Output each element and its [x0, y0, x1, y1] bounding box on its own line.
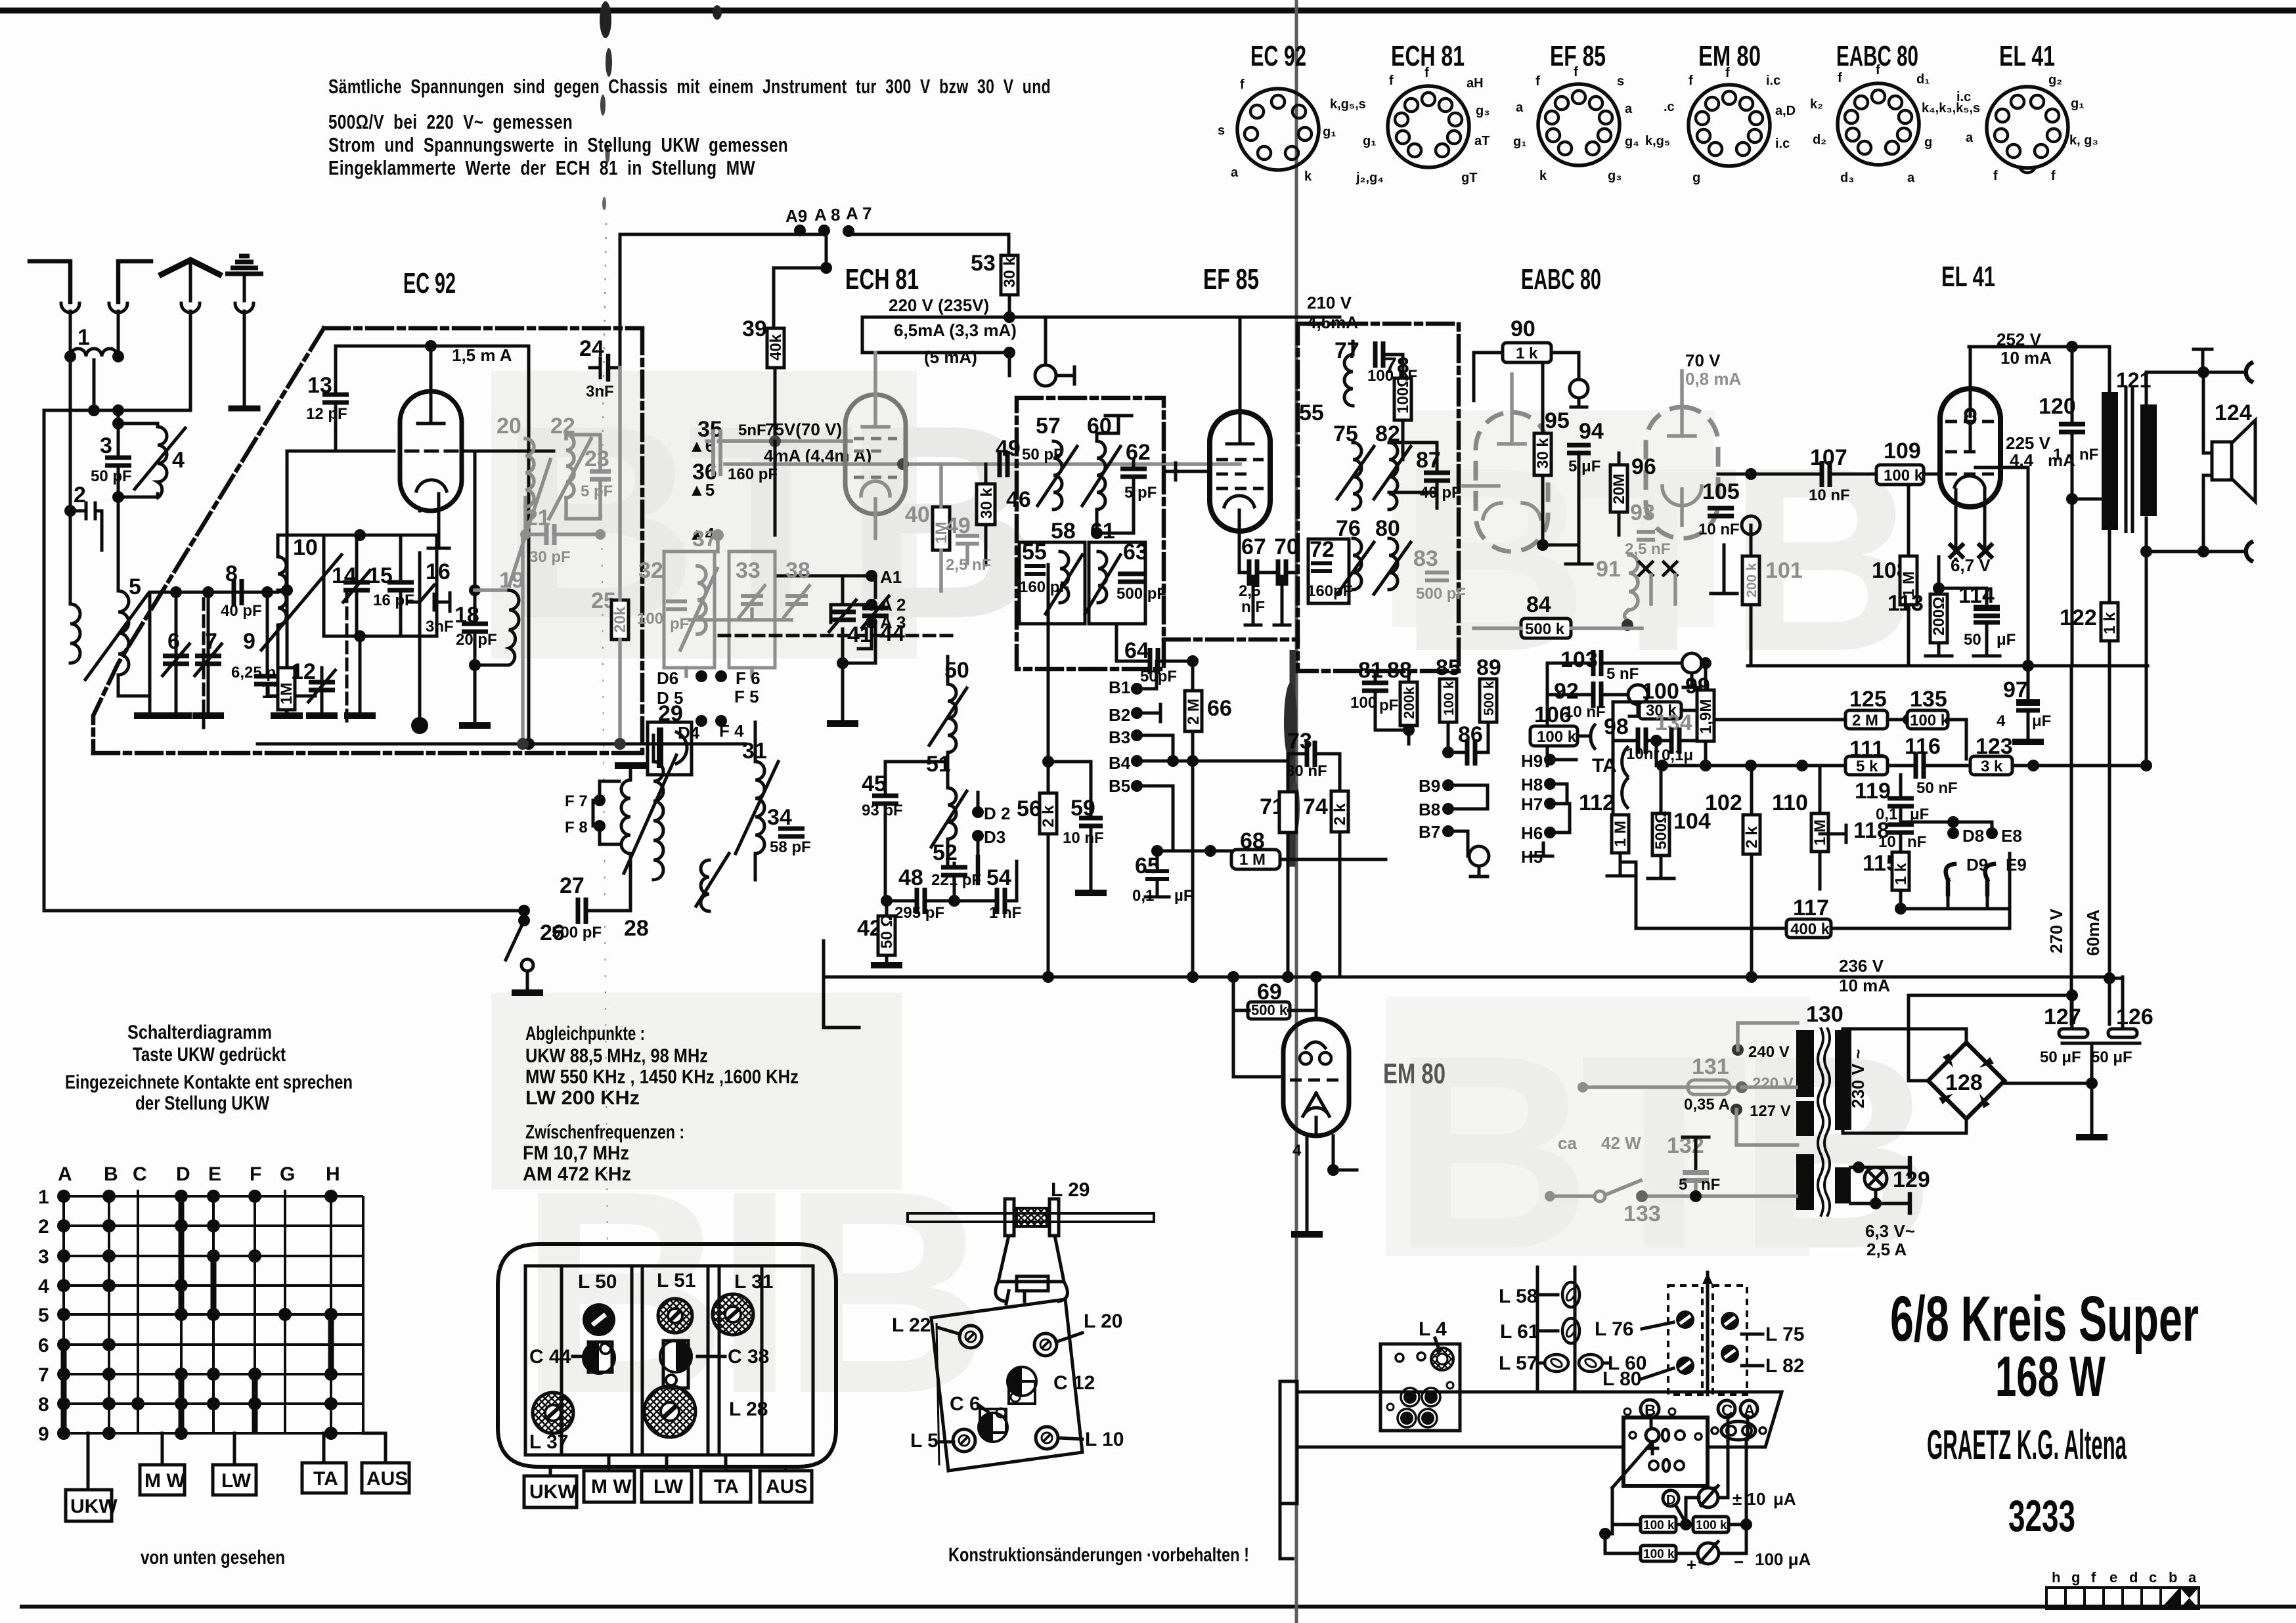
resistor 100k a — [1641, 1517, 1676, 1532]
button stub AUS — [363, 1433, 386, 1463]
svg-text:pF: pF — [670, 615, 689, 633]
wire 125 rail — [1714, 718, 1909, 722]
svg-text:−: − — [1734, 1552, 1744, 1572]
svg-text:LW: LW — [221, 1470, 252, 1492]
wire anode top — [1969, 345, 2109, 349]
svg-text:F 4: F 4 — [719, 721, 744, 741]
svg-text:105: 105 — [1702, 479, 1740, 504]
svg-text:L 76: L 76 — [1595, 1318, 1634, 1340]
resistor 100k c — [1641, 1546, 1676, 1561]
svg-text:M W: M W — [144, 1470, 185, 1492]
svg-text:500Ω/V bei 220 V~ gemessen: 500Ω/V bei 220 V~ gemessen — [328, 110, 573, 133]
svg-text:a: a — [1966, 131, 1974, 145]
button LW — [213, 1465, 256, 1495]
capacitor 13 12pF — [334, 346, 338, 391]
svg-text:F 7: F 7 — [565, 792, 588, 810]
svg-text:500 k: 500 k — [1251, 1002, 1288, 1018]
wire 119-D8 rail — [1901, 822, 1992, 833]
svg-text:70 V: 70 V — [1685, 351, 1721, 370]
svg-text:nF: nF — [1701, 1176, 1720, 1194]
antenna plug hook 2 — [109, 303, 127, 313]
svg-text:Eingezeichnete Kontakte ent s: Eingezeichnete Kontakte ent sprechen — [65, 1071, 353, 1093]
svg-text:g₁: g₁ — [1323, 125, 1336, 139]
svg-text:B8: B8 — [1419, 800, 1440, 819]
antenna terminal stub left — [30, 261, 70, 302]
svg-text:2 k: 2 k — [1331, 803, 1349, 825]
svg-text:k,g₅: k,g₅ — [1645, 134, 1670, 148]
tube socket EF 85 — [1513, 40, 1639, 183]
coil 30 — [701, 860, 709, 911]
svg-text:E: E — [208, 1163, 221, 1185]
svg-text:72: 72 — [1310, 537, 1335, 562]
svg-text:44: 44 — [880, 621, 905, 646]
svg-text:μA: μA — [1773, 1489, 1796, 1509]
svg-text:61: 61 — [1090, 519, 1115, 544]
svg-text:μF: μF — [1997, 631, 2016, 649]
svg-text:66: 66 — [1207, 696, 1232, 721]
svg-text:AUS: AUS — [766, 1476, 807, 1498]
svg-text:63: 63 — [1123, 540, 1148, 565]
svg-text:122: 122 — [2060, 605, 2097, 630]
svg-text:51: 51 — [926, 752, 951, 777]
svg-text:EABC 80: EABC 80 — [1521, 263, 1601, 295]
svg-text:124: 124 — [2215, 400, 2252, 425]
svg-text:4: 4 — [1997, 712, 2006, 730]
svg-text:30 nF: 30 nF — [1286, 762, 1327, 780]
svg-text:von unten gesehen: von unten gesehen — [141, 1547, 285, 1569]
svg-text:g: g — [2071, 1569, 2080, 1586]
svg-text:1 k: 1 k — [2101, 612, 2119, 634]
svg-text:3nF: 3nF — [586, 383, 614, 400]
wire outer box bottom — [44, 909, 524, 913]
svg-text:d₁: d₁ — [1916, 72, 1930, 87]
wire 5 to grid bus — [118, 675, 150, 696]
svg-text:2 M: 2 M — [1185, 699, 1203, 725]
svg-text:FM 10,7 MHz: FM 10,7 MHz — [523, 1142, 629, 1164]
ground 6 — [160, 715, 192, 716]
svg-text:der Stellung UKW: der Stellung UKW — [135, 1093, 270, 1114]
ground top — [1105, 416, 1132, 433]
box 32 37 — [664, 552, 715, 668]
meter upper 10uA — [1698, 1488, 1718, 1507]
triode EABC80 — [1476, 412, 1548, 552]
tube socket EABC 80 — [1810, 40, 1980, 185]
svg-text:56: 56 — [1017, 796, 1042, 821]
matrix contact dots — [57, 1190, 338, 1440]
mech link dashed — [719, 634, 956, 638]
svg-text:Strom und Spannungswerte in: Strom und Spannungswerte in Stellung UKW… — [328, 133, 788, 156]
svg-text:9: 9 — [243, 629, 255, 654]
svg-text:1 nF: 1 nF — [989, 904, 1021, 922]
svg-text:50 μF: 50 μF — [2091, 1049, 2132, 1066]
coil pack outline — [498, 1244, 836, 1467]
svg-text:μF: μF — [2032, 712, 2051, 730]
bridge rectifier 128 — [1928, 1043, 2004, 1119]
paper top border — [0, 8, 2296, 14]
wire 236V bus — [824, 976, 2109, 979]
switch 26 — [518, 905, 530, 917]
svg-text:500Ω: 500Ω — [1652, 811, 1670, 850]
svg-text:28: 28 — [624, 916, 649, 941]
svg-text:30 k: 30 k — [978, 488, 996, 519]
mains switch 133 — [1595, 1191, 1605, 1201]
svg-text:L 28: L 28 — [729, 1398, 768, 1420]
svg-text:k: k — [1304, 169, 1312, 184]
svg-text:62: 62 — [1126, 440, 1151, 465]
svg-text:97: 97 — [2003, 678, 2028, 703]
svg-text:58: 58 — [1051, 519, 1076, 544]
svg-text:84: 84 — [1526, 592, 1551, 617]
svg-text:127 V: 127 V — [1750, 1102, 1791, 1120]
wire osc section — [774, 441, 777, 535]
svg-text:EL 41: EL 41 — [1941, 261, 1995, 293]
svg-text:g₃: g₃ — [1608, 169, 1622, 183]
svg-text:H: H — [326, 1163, 340, 1185]
tube socket EM 80 — [1645, 40, 1796, 185]
svg-text:B9: B9 — [1419, 776, 1440, 796]
svg-text:113: 113 — [1888, 591, 1924, 616]
svg-text:L 10: L 10 — [1085, 1429, 1124, 1450]
svg-text:B: B — [104, 1163, 118, 1185]
svg-text:100 k: 100 k — [1537, 728, 1577, 746]
svg-text:135: 135 — [1910, 687, 1947, 712]
terminal 127V — [1731, 1104, 1742, 1115]
svg-text:k₂: k₂ — [1810, 97, 1823, 112]
svg-text:EL 41: EL 41 — [1999, 40, 2055, 72]
IF can link dash-dot — [1164, 638, 1298, 642]
svg-text:76: 76 — [1336, 516, 1361, 541]
heater winding — [1835, 1167, 1851, 1203]
svg-text:Abgleichpunkte :: Abgleichpunkte : — [525, 1023, 645, 1045]
svg-text:L 57: L 57 — [1499, 1352, 1538, 1374]
svg-text:50 pF: 50 pF — [1022, 446, 1063, 464]
heptode ECH81 — [845, 395, 906, 514]
svg-text:7: 7 — [38, 1364, 49, 1386]
svg-text:ECH 81: ECH 81 — [845, 263, 919, 295]
wire anode bus y527 — [336, 345, 529, 348]
svg-text:40: 40 — [905, 502, 930, 527]
svg-text:f: f — [1725, 66, 1730, 80]
svg-text:e: e — [2109, 1569, 2117, 1586]
coil 4 tunable — [118, 423, 158, 497]
svg-text:f: f — [1689, 74, 1693, 88]
svg-text:EM 80: EM 80 — [1383, 1058, 1446, 1090]
svg-text:i.c: i.c — [1775, 137, 1790, 151]
svg-text:C 44: C 44 — [529, 1346, 571, 1368]
svg-text:30 k: 30 k — [1534, 438, 1552, 469]
svg-text:100 k: 100 k — [1442, 681, 1457, 716]
svg-text:Schalterdiagramm: Schalterdiagramm — [127, 1022, 272, 1043]
svg-text:10 nF: 10 nF — [1698, 521, 1740, 538]
svg-text:5: 5 — [129, 574, 141, 599]
svg-text:220 V: 220 V — [1752, 1075, 1794, 1093]
svg-text:g₁: g₁ — [1513, 135, 1527, 149]
svg-text:91: 91 — [1596, 557, 1621, 582]
svg-text:k,g₅,s: k,g₅,s — [1330, 97, 1366, 112]
svg-text:100 k: 100 k — [1910, 712, 1950, 729]
svg-text:1M: 1M — [278, 683, 296, 704]
svg-text:µF: µF — [1174, 887, 1193, 905]
antenna plug hook 1 — [61, 303, 79, 313]
svg-text:Eingeklammerte Werte der EC: Eingeklammerte Werte der ECH 81 in Stell… — [328, 156, 755, 179]
svg-text:50 nF: 50 nF — [1916, 779, 1958, 797]
tuning indicator box — [1623, 1417, 1708, 1486]
IF transformer III dashed box — [1298, 324, 1459, 671]
antenna terminal stub 2 — [118, 261, 151, 302]
svg-text:20M: 20M — [1610, 473, 1628, 504]
svg-text:A1: A1 — [880, 567, 902, 587]
svg-text:g: g — [1924, 135, 1932, 150]
svg-text:6,5mA (3,3 mA): 6,5mA (3,3 mA) — [894, 320, 1017, 340]
svg-text:g₁: g₁ — [1363, 134, 1377, 148]
socket wires — [1651, 1416, 1748, 1498]
svg-text:10 mA: 10 mA — [2000, 348, 2052, 368]
svg-text:40k: 40k — [767, 334, 785, 360]
svg-text:3nF: 3nF — [426, 618, 454, 636]
svg-text:112: 112 — [1579, 790, 1615, 815]
svg-text:H9: H9 — [1521, 751, 1543, 771]
socket B — [1641, 1400, 1659, 1418]
svg-text:C 38: C 38 — [728, 1346, 769, 1368]
button stub UKW — [87, 1433, 90, 1490]
svg-text:B5: B5 — [1109, 776, 1130, 796]
svg-text:16: 16 — [426, 559, 451, 584]
svg-text:EC 92: EC 92 — [1250, 40, 1306, 72]
svg-text:j₂,g₄: j₂,g₄ — [1356, 171, 1384, 185]
svg-text:9: 9 — [38, 1423, 49, 1445]
earth antenna symbol — [225, 256, 263, 274]
test point — [1035, 365, 1056, 386]
wire grid1 gray — [725, 439, 851, 443]
svg-text:0,1: 0,1 — [1132, 887, 1154, 905]
tube socket ECH 81 — [1330, 40, 1490, 185]
X marks EABC — [1639, 562, 1677, 575]
svg-text:295 pF: 295 pF — [894, 904, 944, 922]
button TA — [302, 1463, 346, 1493]
svg-text:34: 34 — [767, 805, 792, 830]
svg-text:a: a — [1231, 165, 1239, 180]
svg-text:a: a — [1516, 100, 1524, 115]
svg-text:5 μF: 5 μF — [1568, 458, 1601, 475]
svg-text:g: g — [1692, 171, 1700, 185]
svg-text:117: 117 — [1793, 896, 1829, 920]
switch matrix grid — [64, 1190, 363, 1433]
svg-text:2 M: 2 M — [1852, 712, 1878, 729]
svg-text:nF: nF — [1907, 833, 1926, 851]
paper bottom border — [20, 1605, 2296, 1609]
svg-text:98: 98 — [1604, 714, 1629, 739]
button MW — [140, 1465, 185, 1495]
svg-text:240 V: 240 V — [1748, 1043, 1790, 1061]
svg-text:TA: TA — [313, 1468, 338, 1490]
svg-text:65: 65 — [1135, 854, 1160, 878]
svg-text:g₄: g₄ — [1625, 135, 1639, 149]
svg-text:5 nF: 5 nF — [1606, 665, 1639, 683]
svg-text:2: 2 — [38, 1216, 49, 1238]
svg-text:20k: 20k — [611, 606, 629, 633]
svg-text:F 5: F 5 — [734, 687, 759, 706]
SEC_EF85 — [1164, 263, 2152, 1024]
fold smudges top — [600, 1, 611, 38]
svg-text:133: 133 — [1623, 1201, 1661, 1226]
svg-text:20: 20 — [497, 414, 521, 439]
svg-text:D8: D8 — [1962, 826, 1984, 846]
svg-text:27: 27 — [560, 873, 585, 898]
svg-text:f: f — [1240, 77, 1245, 92]
svg-text:1 M: 1 M — [1239, 851, 1266, 869]
svg-text:d₂: d₂ — [1813, 133, 1826, 147]
svg-text:A 2: A 2 — [880, 595, 906, 615]
svg-text:1 k: 1 k — [1516, 345, 1538, 362]
svg-text:500 pF: 500 pF — [552, 924, 602, 941]
svg-text:130: 130 — [1806, 1002, 1843, 1027]
IF can L76 L75 block — [1668, 1286, 1747, 1395]
svg-text:128: 128 — [1945, 1070, 1983, 1095]
wire af bus — [1546, 663, 1549, 766]
svg-text:160pF: 160pF — [1307, 582, 1352, 600]
svg-text:32: 32 — [638, 558, 663, 583]
svg-text:EC 92: EC 92 — [403, 267, 456, 299]
coil L37 — [533, 1393, 573, 1433]
svg-text:± 10: ± 10 — [1733, 1489, 1765, 1509]
resistor 46 30k — [977, 484, 995, 525]
button UKW 2 — [524, 1476, 577, 1507]
box 61 63 — [1089, 542, 1145, 624]
svg-text:k, g₃: k, g₃ — [2069, 133, 2098, 148]
svg-text:10 nF: 10 nF — [1809, 487, 1850, 504]
X marks EL41 cathode — [1951, 545, 1991, 557]
svg-text:67: 67 — [1241, 534, 1266, 559]
gray overlay UKW region left — [491, 371, 917, 659]
svg-text:120: 120 — [2039, 394, 2076, 419]
svg-text:500 pF: 500 pF — [1116, 585, 1166, 603]
svg-text:500 k: 500 k — [1482, 681, 1497, 716]
svg-text:400 k: 400 k — [1790, 920, 1830, 938]
svg-text:B3: B3 — [1109, 727, 1130, 747]
svg-text:s: s — [1218, 123, 1225, 138]
wires EABC couplings — [1375, 729, 1409, 732]
svg-text:M W: M W — [591, 1476, 632, 1498]
svg-text:GRAETZ K.G. Altena: GRAETZ K.G. Altena — [1927, 1422, 2127, 1468]
svg-text:F: F — [250, 1163, 261, 1185]
svg-text:127: 127 — [2044, 1005, 2081, 1029]
svg-text:5: 5 — [1679, 1176, 1687, 1194]
svg-text:H7: H7 — [1521, 794, 1543, 814]
svg-text:TA: TA — [714, 1476, 739, 1498]
svg-text:a: a — [1625, 102, 1633, 116]
svg-text:H6: H6 — [1521, 823, 1543, 843]
svg-text:160 pF: 160 pF — [728, 465, 778, 483]
svg-text:L 50: L 50 — [578, 1271, 617, 1293]
svg-text:94: 94 — [1579, 419, 1604, 444]
svg-text:119: 119 — [1855, 779, 1891, 804]
svg-text:F 8: F 8 — [565, 819, 588, 836]
svg-text:D3: D3 — [984, 827, 1005, 847]
center fold line — [1295, 0, 1298, 1623]
svg-text:5nF: 5nF — [738, 422, 766, 439]
svg-text:42 W: 42 W — [1601, 1133, 1641, 1153]
svg-text:10: 10 — [293, 535, 318, 560]
svg-text:93: 93 — [1630, 500, 1655, 525]
svg-text:6: 6 — [38, 1335, 49, 1356]
svg-text:d₃: d₃ — [1840, 171, 1854, 185]
button MW 2 — [584, 1471, 634, 1502]
svg-text:s: s — [1617, 74, 1624, 89]
svg-text:C 6: C 6 — [950, 1393, 981, 1415]
svg-text:f: f — [2091, 1569, 2096, 1586]
svg-text:50pF: 50pF — [1140, 668, 1177, 685]
svg-text:L 80: L 80 — [1602, 1368, 1642, 1390]
terminal 240V — [1732, 1044, 1744, 1056]
svg-text:+: + — [1687, 1555, 1696, 1574]
svg-text:D4: D4 — [678, 723, 700, 743]
svg-text:500 pF: 500 pF — [1416, 585, 1466, 603]
svg-text:L 58: L 58 — [1499, 1286, 1538, 1307]
wire cathode — [1939, 557, 1987, 594]
wire grid 225V — [1924, 473, 1941, 476]
wire A bus — [620, 234, 1009, 255]
svg-text:48: 48 — [898, 865, 923, 890]
cathode line to 16 — [420, 511, 439, 548]
svg-text:83: 83 — [1413, 546, 1438, 571]
terminal D meter — [1663, 1490, 1679, 1506]
svg-text:100 k: 100 k — [1643, 1547, 1675, 1561]
UKW box dash-dot outline — [93, 328, 324, 753]
svg-text:96: 96 — [1631, 454, 1656, 479]
svg-text:L 82: L 82 — [1765, 1355, 1805, 1377]
svg-text:6/8 Kreis Super: 6/8 Kreis Super — [1890, 1283, 2199, 1354]
svg-text:236 V: 236 V — [1839, 956, 1884, 976]
svg-text:L 20: L 20 — [1084, 1310, 1123, 1332]
svg-text:100 μA: 100 μA — [1755, 1549, 1811, 1569]
svg-text:3: 3 — [100, 433, 112, 458]
wire left outer vertical — [43, 410, 46, 911]
svg-text:L 5: L 5 — [910, 1430, 938, 1452]
svg-text:109: 109 — [1884, 439, 1921, 464]
svg-text:B1: B1 — [1109, 678, 1130, 697]
svg-text:f: f — [1993, 169, 1998, 183]
button stub MW — [161, 1433, 164, 1465]
svg-text:4,4: 4,4 — [2010, 450, 2034, 470]
svg-text:30 k: 30 k — [1001, 257, 1019, 288]
svg-text:4: 4 — [38, 1276, 49, 1297]
box 72 — [1308, 539, 1349, 603]
triode EC92 — [400, 391, 462, 511]
svg-text:AUS: AUS — [366, 1468, 408, 1490]
svg-text:200 k: 200 k — [1744, 563, 1759, 597]
svg-text:30 pF: 30 pF — [529, 548, 571, 566]
svg-text:(5 mA): (5 mA) — [924, 347, 977, 367]
svg-text:89: 89 — [1476, 655, 1501, 680]
svg-text:f: f — [1424, 66, 1429, 80]
svg-text:1,9M: 1,9M — [1697, 699, 1715, 734]
svg-text:58 pF: 58 pF — [770, 838, 811, 856]
svg-text:Taste UKW gedrückt: Taste UKW gedrückt — [133, 1044, 286, 1066]
svg-text:A: A — [58, 1163, 72, 1185]
svg-text:220 V (235V): 220 V (235V) — [889, 295, 989, 315]
svg-text:1 k: 1 k — [1892, 863, 1910, 885]
svg-text:L 4: L 4 — [1419, 1318, 1447, 1340]
svg-text:23: 23 — [585, 446, 609, 471]
diode EABC80 — [1646, 407, 1718, 538]
svg-text:MW 550 KHz , 1450 KHz ,160: MW 550 KHz , 1450 KHz ,1600 KHz — [525, 1066, 799, 1088]
svg-text:74: 74 — [1303, 794, 1328, 819]
button TA 2 — [701, 1471, 751, 1502]
svg-text:L 75: L 75 — [1765, 1324, 1805, 1345]
svg-text:12 pF: 12 pF — [306, 405, 347, 423]
button UKW — [66, 1490, 112, 1521]
svg-text:B2: B2 — [1109, 705, 1130, 725]
